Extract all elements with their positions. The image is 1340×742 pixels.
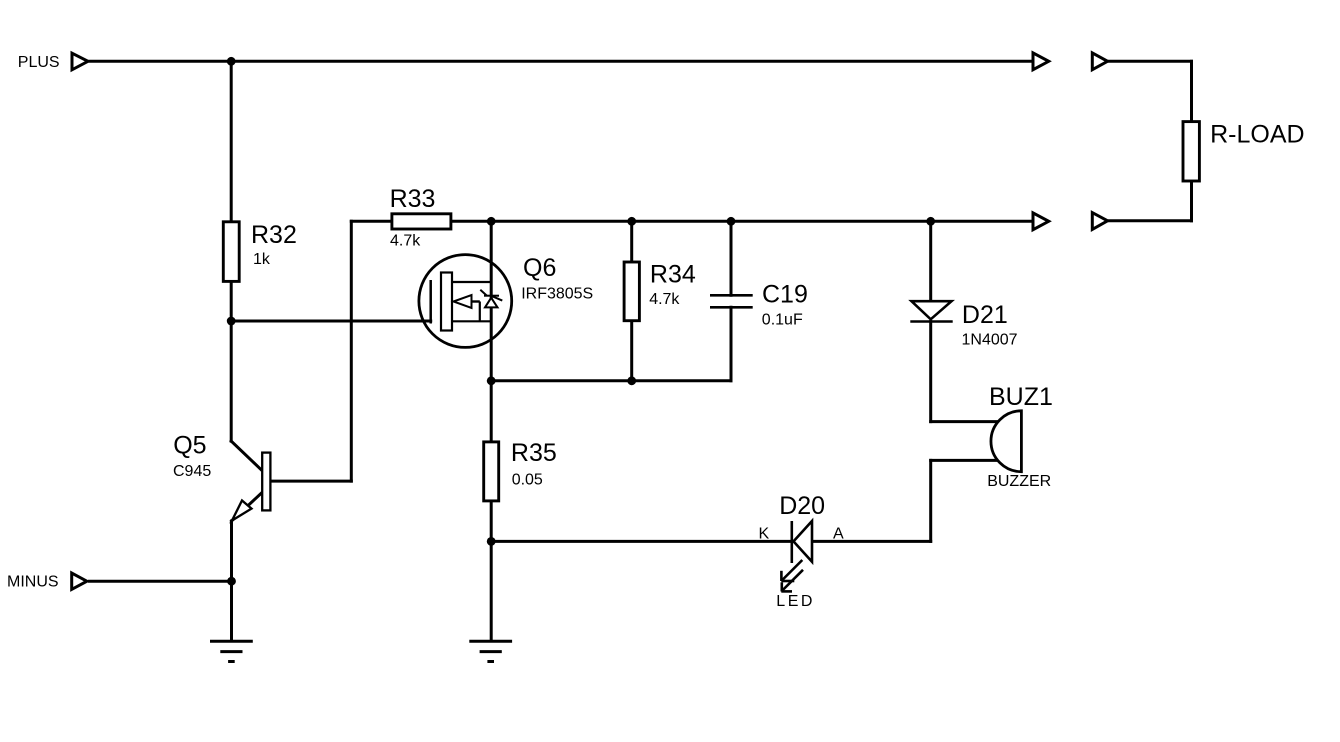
svg-text:R-LOAD: R-LOAD <box>1210 121 1304 149</box>
svg-text:1N4007: 1N4007 <box>962 331 1018 348</box>
svg-text:Q5: Q5 <box>173 431 206 459</box>
svg-text:R35: R35 <box>511 439 557 467</box>
svg-text:C19: C19 <box>762 281 808 309</box>
svg-text:IRF3805S: IRF3805S <box>521 286 593 303</box>
svg-text:MINUS: MINUS <box>7 574 59 591</box>
svg-text:1k: 1k <box>253 251 271 268</box>
svg-text:0.05: 0.05 <box>512 472 543 489</box>
svg-text:R33: R33 <box>390 185 436 213</box>
svg-text:BUZ1: BUZ1 <box>989 383 1053 411</box>
svg-text:D20: D20 <box>779 492 825 520</box>
svg-text:0.1uF: 0.1uF <box>762 311 803 328</box>
svg-text:R34: R34 <box>650 261 696 289</box>
svg-text:4.7k: 4.7k <box>390 233 421 250</box>
svg-text:R32: R32 <box>251 221 297 249</box>
svg-text:4.7k: 4.7k <box>649 291 680 308</box>
svg-text:C945: C945 <box>173 463 211 480</box>
svg-text:BUZZER: BUZZER <box>987 473 1051 490</box>
svg-text:A: A <box>833 526 844 543</box>
svg-text:D21: D21 <box>962 301 1008 329</box>
svg-text:PLUS: PLUS <box>18 54 60 71</box>
svg-text:Q6: Q6 <box>523 254 556 282</box>
svg-text:K: K <box>759 526 770 543</box>
svg-text:LED: LED <box>776 593 815 610</box>
